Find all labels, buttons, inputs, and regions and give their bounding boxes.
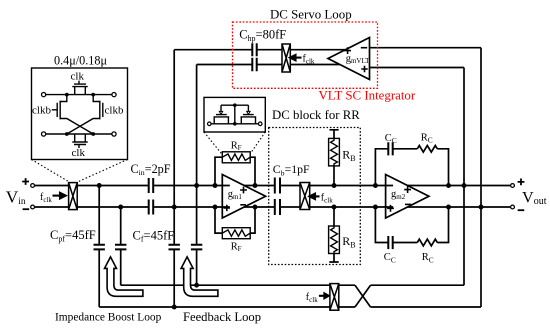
svg-text:Feedback Loop: Feedback Loop	[183, 310, 261, 324]
svg-text:Cf=45fF: Cf=45fF	[133, 228, 175, 243]
svg-text:clk: clk	[72, 147, 86, 159]
svg-text:Cb=1pF: Cb=1pF	[273, 162, 310, 177]
svg-text:clk: clk	[71, 71, 85, 83]
svg-text:VLT SC Integrator: VLT SC Integrator	[319, 89, 416, 103]
svg-text:clkb: clkb	[32, 105, 51, 117]
svg-text:Cin=2pF: Cin=2pF	[131, 162, 171, 177]
svg-text:clkb: clkb	[105, 105, 124, 117]
svg-text:DC block for RR: DC block for RR	[272, 108, 360, 122]
svg-text:Impedance Boost Loop: Impedance Boost Loop	[55, 311, 162, 323]
svg-text:Cpf=45fF: Cpf=45fF	[50, 228, 96, 243]
svg-text:0.4μ/0.18μ: 0.4μ/0.18μ	[54, 53, 107, 67]
svg-text:DC Servo Loop: DC Servo Loop	[270, 8, 352, 22]
svg-text:Chp=80fF: Chp=80fF	[239, 28, 286, 43]
